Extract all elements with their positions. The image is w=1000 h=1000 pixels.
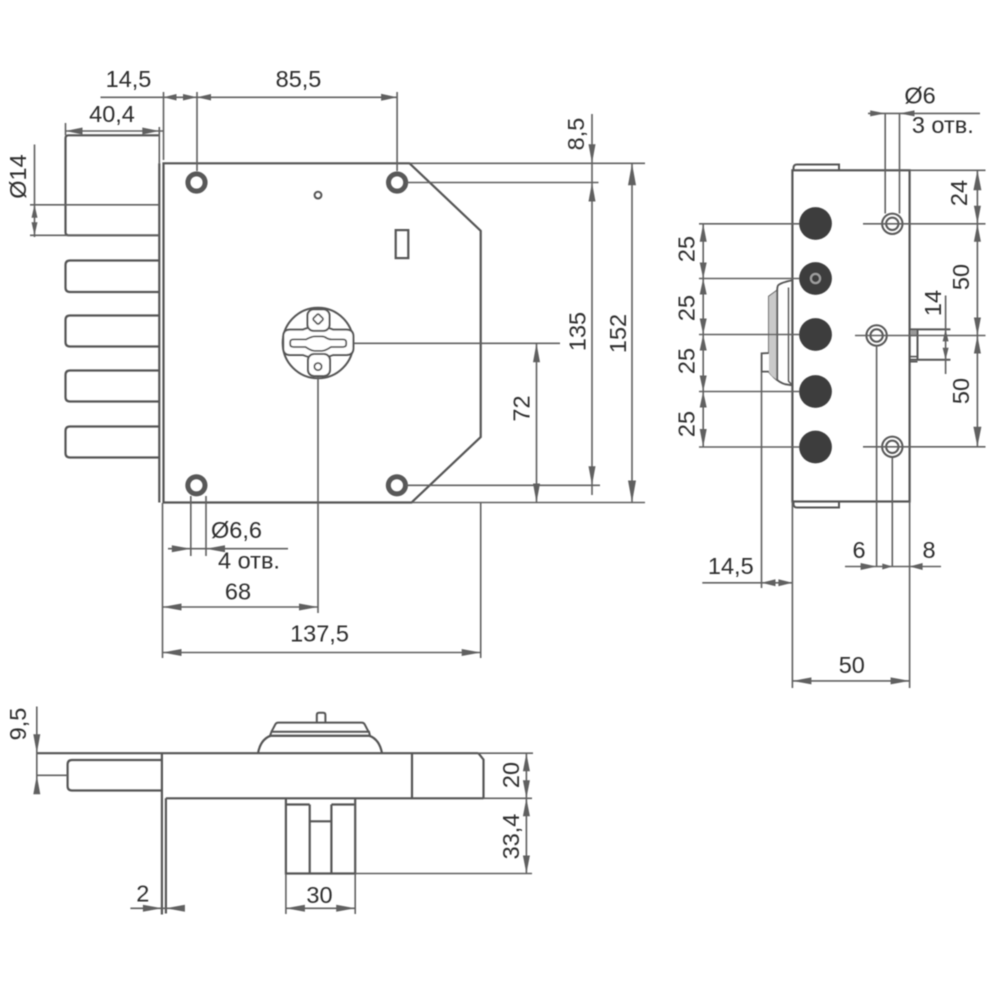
block bottom ext right <box>355 873 532 875</box>
arrows Ø6,6 <box>172 545 191 552</box>
dim 14,5 side line <box>702 582 792 584</box>
key slot profile <box>290 336 346 351</box>
mount hole top-right <box>389 174 406 191</box>
lever pack outer profile <box>762 280 793 385</box>
arrows 9,5 <box>33 734 40 753</box>
lever tip ext line <box>761 373 763 589</box>
faceplate edge line (front view) <box>158 163 160 502</box>
svg-text:2: 2 <box>136 881 149 907</box>
hole2 ext down <box>876 346 878 567</box>
chain dim line 24/50/50 <box>976 170 978 447</box>
mount hole top-left <box>188 174 205 191</box>
hub horizontal band <box>283 327 353 358</box>
square hole ledge lines <box>910 356 918 358</box>
small pin hole <box>315 192 322 199</box>
hub top tab diamond hole <box>313 314 324 325</box>
arrows 14,5 side <box>762 579 776 586</box>
bar bottom ext right <box>484 797 533 799</box>
faceplate inner line (bottom view) <box>165 798 167 913</box>
block ext lines <box>285 874 287 915</box>
side bolt end 1 <box>799 207 832 240</box>
hub centerline right <box>354 342 560 344</box>
bolt B1 head rectangle <box>66 135 160 235</box>
side bolt 2 inner ring <box>811 274 820 283</box>
arrows 25 chain <box>700 224 707 242</box>
hole3 centerline <box>863 446 986 448</box>
dim 25 ext lines <box>699 223 800 225</box>
svg-text:25: 25 <box>674 348 700 374</box>
dim 30 line <box>286 907 355 909</box>
mount hole bottom-left <box>188 477 205 494</box>
dim 40,4 extension <box>65 123 67 135</box>
top edge ext right (side) <box>910 169 986 171</box>
bar top edge <box>37 752 479 754</box>
svg-text:14,5: 14,5 <box>106 66 152 92</box>
dim 14 line <box>945 296 947 375</box>
body right ext to 50 <box>909 592 911 688</box>
svg-text:152: 152 <box>605 314 631 353</box>
side screw hole 1 <box>882 214 902 234</box>
hub top tab <box>308 309 330 331</box>
dim 33,4 line <box>525 798 527 873</box>
arrows 8,5 <box>589 144 596 163</box>
hub centerline down <box>317 377 319 613</box>
arrows 68 <box>163 604 182 611</box>
arrows 50 bottom <box>792 677 811 684</box>
svg-text:Ø6,6: Ø6,6 <box>211 517 262 543</box>
arrows 14 <box>943 329 949 341</box>
dim 20 line <box>525 753 527 798</box>
side bolt end 2 <box>799 262 832 295</box>
knob pin <box>317 713 326 723</box>
dim Ø6 line <box>868 112 980 114</box>
body right ext down <box>909 502 911 593</box>
svg-text:14: 14 <box>920 290 946 316</box>
bolt B4 <box>66 371 160 402</box>
bolt B5 <box>66 427 160 458</box>
dim Ø14 line <box>34 145 36 238</box>
svg-text:30: 30 <box>306 882 332 908</box>
dim 6/8 line <box>845 566 941 568</box>
right edge extension down <box>480 503 482 658</box>
arrows 72 <box>533 343 540 362</box>
svg-text:Ø14: Ø14 <box>5 154 31 198</box>
arrows 14,5 <box>164 94 177 101</box>
side screw hole 2 <box>866 325 886 345</box>
svg-text:68: 68 <box>225 579 251 605</box>
faceplate top cap <box>794 165 840 171</box>
bottom edge extension right <box>412 502 646 504</box>
lower block outline <box>286 798 355 873</box>
square spindle hole <box>917 329 919 359</box>
dim 14,5/85,5 extension lines <box>163 92 165 160</box>
bar right end <box>478 753 483 798</box>
svg-text:8,5: 8,5 <box>563 118 589 151</box>
arrow 85,5 right <box>381 94 397 101</box>
side bolt rectangle <box>68 760 162 791</box>
square hole shading <box>911 330 917 336</box>
svg-text:8: 8 <box>922 537 935 563</box>
svg-text:24: 24 <box>946 180 972 206</box>
dim 68 line <box>163 606 319 608</box>
lever plate edge <box>776 291 778 381</box>
svg-text:40,4: 40,4 <box>89 101 135 127</box>
side screw hole 3 <box>882 437 902 457</box>
svg-text:6: 6 <box>852 537 865 563</box>
arrows 40,4 <box>66 128 83 135</box>
hole4 centerline right <box>406 484 600 486</box>
dim line top <box>101 96 398 98</box>
lower block center notch <box>310 820 332 822</box>
arrows Ø14 <box>32 205 38 218</box>
hub circle <box>283 308 354 379</box>
arrows 33,4 <box>523 798 530 816</box>
dim 8,5 / 135 line <box>591 114 593 495</box>
side bolt end 3 <box>799 318 832 351</box>
arrows 137,5 <box>163 649 182 656</box>
hole2 centerline right <box>406 182 599 184</box>
svg-text:135: 135 <box>565 312 591 351</box>
body left ext line down <box>791 502 793 689</box>
svg-text:50: 50 <box>948 378 974 404</box>
dim 2 arrows+line <box>130 907 184 909</box>
svg-text:72: 72 <box>509 395 535 421</box>
dim line 40,4 <box>66 130 164 132</box>
arrow 135 bottom <box>589 466 596 485</box>
arrows 152 <box>628 163 636 185</box>
arrows 20 <box>523 753 530 771</box>
dim Ø6,6 line <box>168 548 288 550</box>
side bolt end 5 <box>799 431 832 464</box>
bolt B3 <box>66 316 160 347</box>
hole3 ext down <box>891 458 893 568</box>
knob flange <box>270 732 370 736</box>
dim 25 chain line <box>702 224 704 447</box>
dim 137,5 line <box>163 652 481 654</box>
knob cap <box>272 723 369 732</box>
svg-text:33,4: 33,4 <box>498 814 524 860</box>
svg-text:Ø6: Ø6 <box>904 83 935 109</box>
dim 152 line <box>631 163 633 502</box>
side bolt centerline <box>37 774 68 776</box>
hub bottom tab <box>308 354 330 376</box>
bar top ext right <box>478 752 533 754</box>
dim 50 bottom line <box>792 680 909 682</box>
svg-text:20: 20 <box>498 762 524 788</box>
lever inner line <box>789 288 793 385</box>
hole3 tangent ext lines <box>190 496 192 556</box>
bar bottom edge <box>166 797 484 799</box>
left edge extension down <box>162 503 164 658</box>
hub bottom tab hole <box>314 363 321 370</box>
svg-text:25: 25 <box>674 295 700 321</box>
svg-text:85,5: 85,5 <box>276 66 322 92</box>
faceplate outer line (bottom view) <box>161 753 163 914</box>
svg-text:50: 50 <box>839 652 865 678</box>
dim 72 line <box>536 343 538 502</box>
svg-text:14,5: 14,5 <box>708 553 754 579</box>
lever plate fill <box>769 291 777 381</box>
bar chamfer projection line <box>411 753 413 798</box>
chain arrows <box>973 170 981 190</box>
lower block shoulders <box>287 803 310 805</box>
arrows 30 <box>286 905 305 912</box>
svg-text:3 отв.: 3 отв. <box>912 112 974 138</box>
dim Ø6 tangent lines <box>884 113 886 213</box>
hole2 centerline <box>855 335 986 337</box>
svg-text:25: 25 <box>674 236 700 262</box>
svg-text:9,5: 9,5 <box>5 708 31 741</box>
hole1 centerline <box>863 223 986 225</box>
svg-text:137,5: 137,5 <box>290 621 349 647</box>
svg-text:4 отв.: 4 отв. <box>218 548 280 574</box>
svg-text:25: 25 <box>674 411 700 437</box>
mount hole bottom-right <box>388 477 405 494</box>
key slot rectangle <box>396 230 409 258</box>
knob base <box>258 736 382 753</box>
lower block inner walls <box>309 805 311 874</box>
top edge extension right <box>410 162 646 164</box>
side bolt end 4 <box>799 375 832 408</box>
arrows Ø6 <box>870 110 885 116</box>
arrows 6/8 <box>861 563 877 570</box>
lock body outline (front view) <box>164 163 481 502</box>
faceplate bottom cap <box>794 502 840 508</box>
svg-text:50: 50 <box>948 264 974 290</box>
side body outline <box>792 170 909 501</box>
dim 9,5 line <box>36 707 38 792</box>
bolt B2 <box>66 261 160 293</box>
bolt B1 internal line + Ø14 extension <box>30 204 159 206</box>
